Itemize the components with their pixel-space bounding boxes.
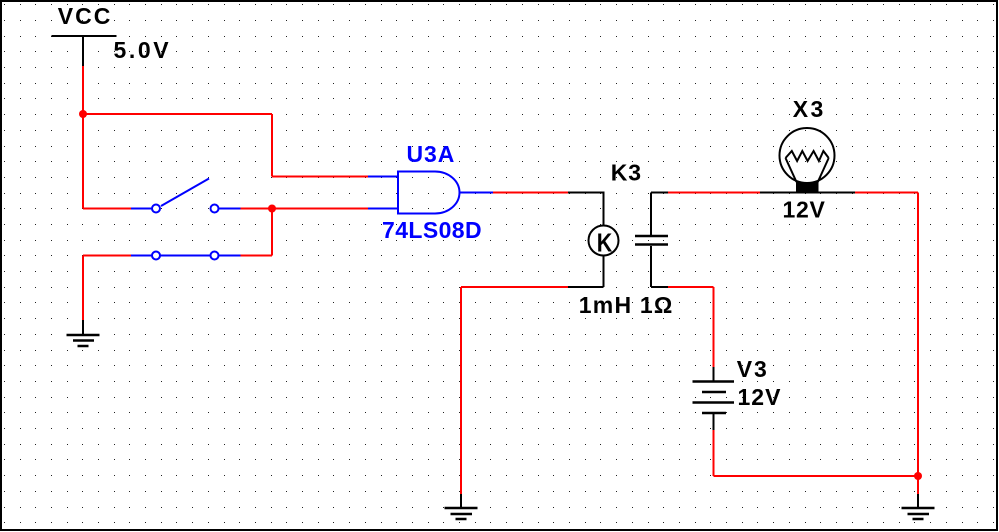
svg-text:V3: V3 — [737, 356, 769, 382]
battery V3 — [693, 367, 735, 430]
wire junction to right — [83, 113, 272, 115]
relay K3 coil — [568, 193, 619, 288]
svg-text:X3: X3 — [793, 96, 826, 122]
VCC power symbol — [52, 36, 117, 66]
svg-text:12V: 12V — [738, 384, 782, 410]
wire row2 left down to ground — [82, 256, 84, 321]
switch J2 (closed) — [131, 252, 241, 260]
svg-text:5.0V: 5.0V — [114, 37, 172, 63]
wire lamp to right column — [855, 192, 918, 194]
AND gate U3A body — [368, 172, 493, 214]
wire junction down to row2 — [271, 209, 273, 256]
wire battery bottom down — [713, 430, 715, 476]
node junction at VCC branch — [79, 110, 87, 118]
svg-text:K3: K3 — [611, 160, 642, 186]
node junction switch row — [268, 205, 276, 213]
node junction bottom right — [914, 472, 922, 480]
svg-text:VCC: VCC — [58, 3, 113, 29]
wire junction to right ground — [917, 476, 919, 494]
wire bottom row to right — [714, 475, 919, 477]
wire right column down — [917, 193, 919, 477]
wire to gate input 1 — [272, 176, 368, 178]
wire contact top to lamp — [668, 192, 760, 194]
relay K3 contact — [635, 193, 668, 288]
switch J1 (open) — [131, 179, 241, 213]
wire row2 left — [83, 255, 131, 257]
ground (right) — [902, 494, 935, 519]
ground (middle) — [445, 494, 478, 519]
wire row1 left — [83, 208, 131, 210]
wire down to gate input 1 row — [271, 114, 273, 177]
wire down to battery top — [713, 287, 715, 367]
wire row1 right to gate input 2 — [241, 208, 369, 210]
lamp X3 — [760, 128, 855, 193]
svg-text:1mH 1Ω: 1mH 1Ω — [579, 292, 674, 318]
wire VCC lead down to switch row — [82, 66, 84, 209]
wire coil bottom to left — [461, 286, 568, 288]
svg-text:K: K — [597, 228, 613, 258]
ground (left) — [67, 320, 100, 346]
wire gate output to relay coil — [493, 192, 568, 194]
wire contact bottom to battery — [668, 286, 714, 288]
svg-text:74LS08D: 74LS08D — [382, 217, 482, 243]
svg-text:12V: 12V — [783, 196, 826, 222]
wire down to mid ground — [460, 287, 462, 494]
svg-text:U3A: U3A — [407, 141, 456, 167]
wire row2 right up to junction — [241, 255, 273, 257]
